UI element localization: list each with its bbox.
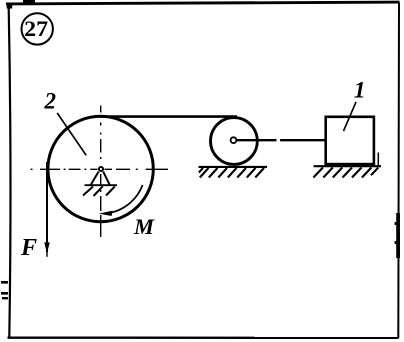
- pin support circle at disk center: [99, 167, 103, 171]
- disk 2 (large pulley): [48, 116, 153, 221]
- pin support hatching: [83, 186, 115, 196]
- force F line: [46, 162, 48, 252]
- small pulley: [211, 118, 258, 165]
- moment M arrowhead: [99, 211, 113, 216]
- figure number circle 27: [22, 13, 53, 44]
- scan artifact at block lower right: [377, 153, 379, 167]
- scan artifact ticks on left border: [1, 281, 8, 284]
- ground line under block: [314, 165, 382, 167]
- frame border bottom: [8, 337, 399, 339]
- frame border left: [9, 3, 11, 339]
- leader line for label 2: [57, 113, 86, 155]
- scan step at top-left corner: [7, 3, 13, 9]
- rope from pulley axle to block: [236, 139, 326, 141]
- leader line for label 1: [344, 102, 357, 131]
- block 1: [326, 117, 374, 164]
- horizontal centerline of disk: [31, 168, 169, 170]
- svg-text:1: 1: [354, 78, 366, 104]
- pin support base line: [85, 184, 118, 186]
- ground line under pulley: [199, 166, 268, 168]
- scan blob on right border: [396, 213, 400, 258]
- vertical centerline of disk: [100, 106, 102, 238]
- force F arrowhead: [44, 242, 50, 253]
- rope from disk top to small pulley: [100, 115, 237, 118]
- ground hatching under block: [313, 168, 378, 178]
- small pulley axle: [231, 137, 237, 143]
- svg-text:27: 27: [24, 16, 48, 41]
- frame border right: [397, 3, 400, 339]
- scan gap in rope: [277, 138, 281, 142]
- svg-text:F: F: [20, 235, 37, 261]
- pin support triangle: [91, 172, 110, 185]
- svg-text:M: M: [133, 214, 155, 239]
- ground hatching under pulley: [199, 168, 264, 178]
- scan blob on top border: [23, 0, 35, 5]
- frame border top: [6, 2, 400, 4]
- svg-text:2: 2: [44, 89, 57, 114]
- moment M arc: [112, 185, 143, 213]
